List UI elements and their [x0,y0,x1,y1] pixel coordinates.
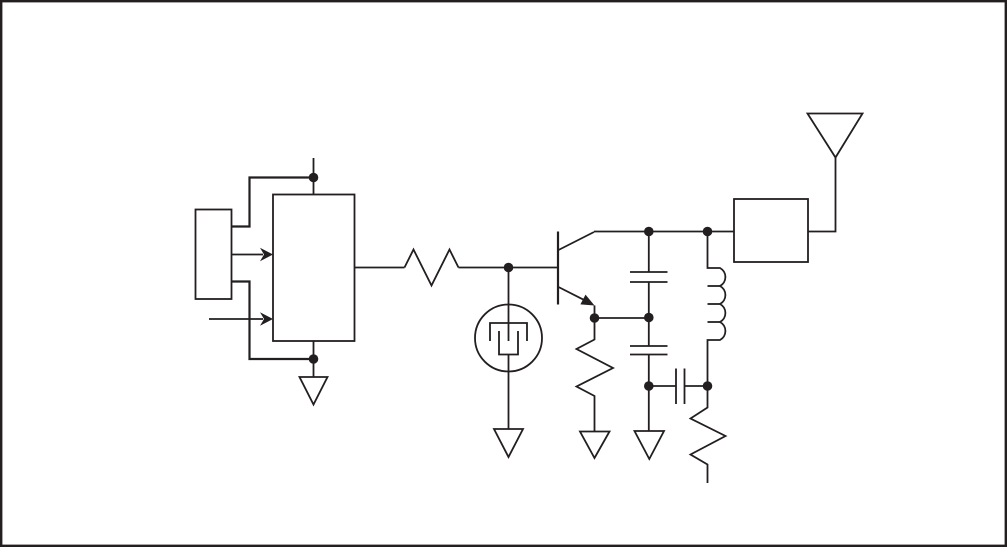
node emitter dot [590,313,600,323]
crystal Y1 outer electrode [490,323,527,341]
wire crystal bottom [508,355,510,430]
ground C2 [635,431,665,459]
node C1C2 dot [644,313,654,323]
wire to base [459,267,559,269]
ground R2 [580,432,610,459]
resistor R3 [691,386,726,483]
transistor Q1 emitter arrowhead [580,295,594,306]
node VCC dot [309,173,319,183]
capacitor C1 [648,232,650,273]
block U2 [734,199,808,262]
ground U1 [300,377,328,405]
crystal Y1 circle [475,305,542,372]
transistor Q1 collector [559,232,595,250]
inductor L1 nub 1 [708,285,721,287]
node base dot [504,263,514,273]
wire emitter to C1C2 [595,317,649,319]
wire crystal top [508,268,510,342]
node tank top dot [703,227,713,237]
wire U1 output [355,267,405,269]
node GND dot [309,354,319,364]
pin U1 bottom [313,341,315,377]
antenna ANT1 [808,114,863,158]
wire to antenna [808,158,836,232]
resistor R2 [577,318,614,432]
block U1 [273,195,355,342]
transistor Q1 base bar [557,232,559,305]
VCC stub [313,158,315,195]
wire C2 to ground [648,386,650,431]
arrowhead input2 [260,312,273,325]
node collector dot C1 [644,227,654,237]
inductor L1 nub 3 [708,321,721,323]
capacitor C2 [648,318,650,347]
arrowhead input1 [260,248,273,261]
wire emitter down [594,306,596,319]
node tank bottom dot [703,381,713,391]
connector J1 [196,210,232,300]
transistor Q1 emitter [559,287,585,300]
inductor L1 nub 2 [708,303,721,305]
crystal Y1 inner electrode [499,331,518,355]
resistor R1 [405,250,459,286]
node C2 bottom dot [644,381,654,391]
wire input1 [232,254,264,256]
inductor L1 [708,232,726,387]
ground Y1 [494,429,523,457]
wire collector rail [594,231,734,233]
wire enable [232,178,314,227]
capacitor C3 [649,385,676,387]
wire input2 [209,318,263,320]
wire gnd-loop [232,282,314,360]
